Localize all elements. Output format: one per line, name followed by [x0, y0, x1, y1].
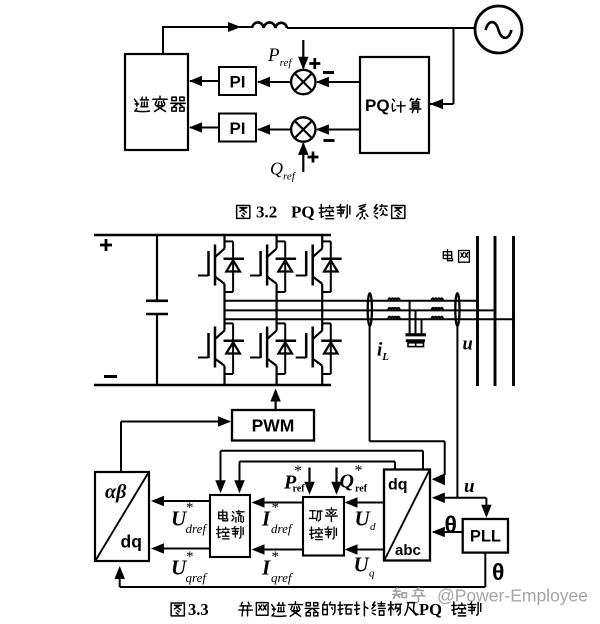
- svg-text:PWM: PWM: [252, 416, 295, 436]
- svg-text:αβ: αβ: [105, 481, 127, 503]
- svg-text:qref: qref: [186, 570, 209, 585]
- svg-text:qref: qref: [271, 570, 294, 585]
- svg-text:PLL: PLL: [470, 528, 501, 546]
- svg-text:*: *: [186, 500, 194, 516]
- svg-text:q: q: [369, 568, 375, 580]
- svg-text:θ: θ: [492, 559, 504, 585]
- svg-text:*: *: [272, 500, 280, 516]
- svg-text:I: I: [261, 556, 271, 580]
- svg-text:I: I: [261, 507, 271, 531]
- svg-text:3.3: 3.3: [188, 600, 209, 619]
- svg-text:dq: dq: [121, 532, 142, 552]
- svg-text:u: u: [464, 476, 475, 497]
- svg-text:PI: PI: [229, 119, 245, 138]
- svg-text:PI: PI: [229, 73, 245, 92]
- svg-text:ref: ref: [293, 484, 306, 495]
- svg-text:*: *: [294, 463, 302, 480]
- svg-text:U: U: [354, 553, 371, 577]
- svg-text:PQ: PQ: [291, 203, 315, 222]
- svg-text:ref: ref: [355, 484, 368, 495]
- svg-text:U: U: [355, 507, 372, 531]
- svg-text:@Power-Employee: @Power-Employee: [437, 586, 588, 606]
- svg-text:d: d: [370, 521, 376, 533]
- svg-text:θ: θ: [445, 512, 457, 538]
- svg-text:u: u: [463, 335, 473, 355]
- svg-text:abc: abc: [395, 542, 421, 559]
- svg-text:3.2: 3.2: [256, 203, 277, 222]
- svg-text:Q: Q: [340, 471, 354, 493]
- svg-text:dref: dref: [271, 521, 294, 536]
- svg-text:*: *: [355, 463, 363, 480]
- svg-text:*: *: [272, 549, 280, 565]
- svg-text:PQ: PQ: [365, 96, 390, 115]
- svg-text:*: *: [186, 549, 194, 565]
- svg-text:dref: dref: [186, 521, 209, 536]
- svg-text:dq: dq: [388, 477, 408, 494]
